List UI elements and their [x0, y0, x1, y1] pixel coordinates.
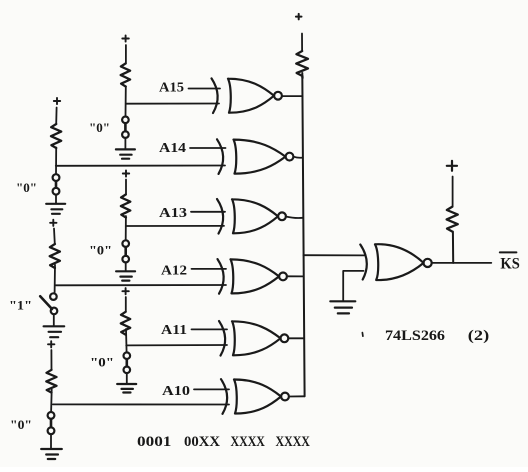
wire S2 to ground	[55, 195, 57, 203]
wire + to R1	[301, 34, 303, 52]
wire A12 to U1d	[192, 268, 227, 270]
switch S1 (closed, "0")	[122, 117, 129, 138]
svg-text:"0": "0"	[10, 417, 32, 432]
wire node N2 to U1b lower input	[56, 165, 225, 167]
node bus to U2 wire	[304, 254, 365, 256]
wire S5 to ground	[126, 373, 128, 383]
net label KS (overline)	[500, 251, 517, 253]
XNOR gate U1b (A14)	[217, 139, 293, 174]
wire U1d output to bus	[287, 275, 303, 277]
wire R8 to KS node	[452, 232, 454, 263]
wire A11 to U1e	[192, 328, 228, 330]
resistor R2	[121, 64, 130, 87]
svg-text:"0": "0"	[89, 120, 110, 135]
resistor R4	[121, 195, 130, 218]
wire U2 lower input to ground	[343, 271, 363, 301]
wire A15 to U1a	[189, 88, 221, 90]
svg-text:XXXX: XXXX	[276, 433, 310, 450]
XNOR gate U2 (output gate)	[360, 244, 431, 280]
ground (U2 input)	[330, 301, 355, 313]
switch S3 (closed, "0")	[122, 240, 129, 262]
wire node N6 to U1f lower input	[53, 403, 229, 405]
svg-text:"0": "0"	[89, 243, 112, 258]
wire U1c output to bus	[286, 217, 303, 219]
svg-text:A10: A10	[162, 384, 190, 399]
svg-text:A12: A12	[161, 264, 187, 279]
svg-text:A13: A13	[159, 206, 187, 221]
resistor R5	[50, 244, 60, 268]
wire R5 to node N4 and switch S4	[54, 265, 56, 293]
XNOR gate U1e (A11)	[219, 321, 288, 356]
svg-text:"1": "1"	[9, 298, 32, 313]
wire R3 to node N2 and switch S2	[55, 148, 57, 175]
wire + to R6	[125, 297, 127, 312]
svg-text:A11: A11	[161, 323, 187, 338]
wire R2 to node N1 and switch S1	[125, 87, 127, 117]
wire node N1 to U1a lower input	[126, 103, 219, 105]
stray comma mark	[361, 333, 364, 337]
wire S1 to ground	[124, 138, 126, 149]
wire R4 to node N3 and switch S3	[125, 216, 127, 240]
wire S3 to ground	[125, 263, 127, 271]
ground (N5 switch)	[117, 384, 136, 393]
power + (node N1 pull-up, col2)	[122, 35, 129, 41]
wire A10 to U1f	[194, 388, 229, 390]
wire + to R3	[55, 108, 57, 125]
wire + to R7	[50, 350, 52, 370]
switch S2 (closed, "0")	[53, 174, 60, 194]
wire R6 to node N5 and switch S5	[125, 329, 128, 352]
switch S6 (closed, "0")	[48, 412, 55, 434]
wire S6 to ground	[50, 434, 52, 447]
power + (top bus pull-up)	[296, 14, 302, 20]
wire U1a output to bus	[282, 95, 302, 97]
wire + to R8	[452, 177, 454, 207]
svg-text:A14: A14	[159, 141, 186, 156]
resistor R1 (bus pull-up)	[296, 51, 308, 78]
wire U1e output to bus	[288, 337, 303, 339]
resistor R7	[46, 370, 56, 393]
resistor R3	[51, 124, 61, 148]
ground (N4 switch)	[44, 326, 65, 337]
ground (N1 switch)	[116, 149, 135, 158]
svg-text:"0": "0"	[90, 355, 114, 370]
power + (node N6 pull-up, col1)	[48, 341, 54, 347]
power + (node N2 pull-up, col1)	[54, 98, 60, 104]
svg-text:KS: KS	[500, 255, 519, 272]
svg-text:0001: 0001	[137, 433, 171, 450]
wire node N3 to U1c lower input	[126, 225, 224, 227]
svg-text:(2): (2)	[468, 328, 489, 344]
power + (node N4 pull-up, col1)	[50, 220, 56, 226]
svg-text:XXXX: XXXX	[231, 433, 265, 450]
ground (N3 switch)	[116, 271, 135, 280]
svg-text:74LS266: 74LS266	[385, 328, 446, 344]
resistor R6	[121, 312, 130, 335]
ground (N2 switch)	[46, 204, 65, 214]
wire U2 output to KS	[432, 262, 492, 264]
resistor R8 (KS pull-up)	[447, 207, 458, 232]
XNOR gate U1d (A12)	[218, 259, 287, 294]
svg-text:"0": "0"	[16, 180, 37, 195]
wire S4 to ground	[53, 314, 55, 325]
wire U1b output to bus	[294, 157, 303, 158]
wire A14 to U1b	[190, 147, 226, 149]
wire U1f output to bus	[289, 395, 304, 397]
bus wire (wired outputs)	[302, 73, 304, 396]
wire + to R4	[125, 180, 127, 195]
ground (N6 switch)	[41, 449, 62, 459]
wire node N5 to U1e lower input	[126, 344, 227, 346]
XNOR gate U1c (A13)	[217, 199, 286, 234]
wire + to R5	[53, 229, 56, 245]
svg-text:00XX: 00XX	[184, 433, 220, 450]
power + (KS pull-up)	[447, 161, 457, 171]
XNOR gate U1a (A15)	[212, 78, 282, 113]
svg-text:A15: A15	[159, 81, 184, 96]
wire node N4 to U1d lower input	[55, 284, 226, 286]
power + (node N5 pull-up, col2)	[122, 288, 128, 294]
power + (node N3 pull-up, col2)	[123, 170, 129, 176]
switch S5 (closed, "0")	[124, 352, 131, 373]
wire R7 to node N6 and switch S6	[50, 389, 53, 412]
wire + to R2	[125, 45, 127, 64]
XNOR gate U1f (A10)	[221, 379, 289, 414]
wire A13 to U1c	[191, 211, 225, 213]
switch S4 (open, "1")	[40, 293, 57, 314]
